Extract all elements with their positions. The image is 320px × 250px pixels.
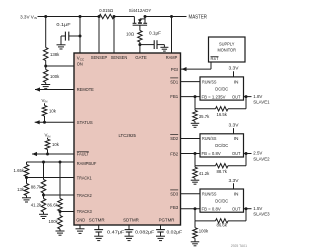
svg-text:10Ω: 10Ω — [126, 32, 134, 37]
svg-text:MONITOR: MONITOR — [217, 48, 236, 53]
svg-text:GND: GND — [76, 217, 85, 222]
svg-text:FAULT: FAULT — [77, 152, 89, 157]
svg-text:FB = 1.235V: FB = 1.235V — [202, 94, 226, 99]
svg-text:3.3V VIN: 3.3V VIN — [20, 14, 37, 20]
svg-text:1.5V: 1.5V — [253, 206, 262, 211]
svg-text:DC/DC: DC/DC — [215, 86, 228, 91]
svg-text:RUN/SS: RUN/SS — [202, 191, 217, 196]
svg-text:SLAVE2: SLAVE2 — [253, 157, 270, 162]
svg-text:13k: 13k — [17, 187, 25, 192]
svg-text:OUT: OUT — [232, 206, 241, 211]
svg-text:SLAVE1: SLAVE1 — [253, 100, 270, 105]
svg-text:100k: 100k — [48, 219, 58, 224]
svg-text:SCTMR: SCTMR — [89, 218, 105, 223]
svg-text:OUT: OUT — [232, 94, 241, 99]
svg-text:SDTMR: SDTMR — [123, 218, 139, 223]
svg-text:PGI: PGI — [171, 67, 179, 72]
svg-text:ON: ON — [77, 61, 83, 66]
svg-text:PGTMR: PGTMR — [159, 218, 175, 223]
svg-text:FB = 0.8V: FB = 0.8V — [202, 151, 221, 156]
svg-text:41.2k: 41.2k — [31, 202, 42, 207]
svg-text:0.1μF: 0.1μF — [149, 30, 161, 35]
svg-text:IN: IN — [234, 136, 239, 141]
svg-text:1.65k: 1.65k — [13, 168, 24, 173]
svg-text:SD2: SD2 — [170, 136, 179, 141]
svg-text:VIN: VIN — [45, 132, 51, 138]
svg-text:RUN/SS: RUN/SS — [202, 79, 217, 84]
svg-text:3.3V: 3.3V — [229, 123, 239, 128]
svg-text:0.47μF: 0.47μF — [107, 230, 125, 235]
svg-text:FB = 0.8V: FB = 0.8V — [202, 206, 221, 211]
svg-text:2925 TA01: 2925 TA01 — [231, 244, 247, 248]
svg-text:SUPPLY: SUPPLY — [219, 42, 235, 47]
svg-text:TRACK1: TRACK1 — [77, 175, 92, 180]
svg-text:RAMP: RAMP — [166, 55, 178, 60]
svg-text:3.3V: 3.3V — [229, 66, 239, 71]
svg-text:MASTER: MASTER — [189, 14, 208, 20]
svg-text:RUN/SS: RUN/SS — [202, 136, 217, 141]
svg-text:GATE: GATE — [135, 55, 147, 60]
svg-text:SENSEP: SENSEP — [91, 55, 108, 60]
svg-text:SD3: SD3 — [170, 191, 179, 196]
svg-text:41.2k: 41.2k — [199, 171, 210, 176]
svg-text:100k: 100k — [199, 229, 209, 234]
svg-text:100k: 100k — [50, 74, 60, 79]
svg-text:0.082μF: 0.082μF — [135, 230, 155, 235]
svg-text:1.8V: 1.8V — [253, 94, 262, 99]
svg-text:FB2: FB2 — [170, 152, 179, 157]
svg-text:STATUS: STATUS — [77, 120, 93, 125]
svg-text:88.7k: 88.7k — [31, 185, 42, 190]
svg-text:TRACK3: TRACK3 — [77, 209, 92, 214]
svg-text:0.02μF: 0.02μF — [167, 230, 183, 235]
svg-text:3.3V: 3.3V — [229, 178, 239, 183]
svg-text:SLAVE3: SLAVE3 — [253, 212, 270, 217]
svg-text:FB3: FB3 — [170, 205, 179, 210]
svg-text:OUT: OUT — [232, 151, 241, 156]
svg-text:0.015Ω: 0.015Ω — [99, 8, 113, 13]
svg-text:RST: RST — [211, 56, 219, 61]
svg-text:SD1: SD1 — [170, 79, 179, 84]
svg-text:IN: IN — [234, 191, 239, 196]
svg-text:REMOTE: REMOTE — [77, 87, 94, 92]
svg-text:SENSEN: SENSEN — [111, 55, 128, 60]
svg-text:10k: 10k — [49, 108, 57, 113]
svg-text:FB1: FB1 — [170, 94, 179, 99]
svg-text:0.1μF: 0.1μF — [56, 22, 71, 27]
svg-text:DC/DC: DC/DC — [215, 198, 228, 203]
svg-text:35.7k: 35.7k — [199, 114, 210, 119]
svg-text:10k: 10k — [52, 142, 60, 147]
svg-text:DC/DC: DC/DC — [215, 143, 228, 148]
svg-text:88.7k: 88.7k — [216, 169, 227, 174]
svg-text:138k: 138k — [50, 52, 60, 57]
svg-text:VIN: VIN — [42, 98, 48, 104]
svg-text:TRACK2: TRACK2 — [77, 193, 92, 198]
svg-text:16.5k: 16.5k — [216, 112, 227, 117]
svg-text:IN: IN — [234, 79, 239, 84]
svg-text:LTC2925: LTC2925 — [118, 133, 136, 138]
svg-text:2.5V: 2.5V — [253, 151, 262, 156]
svg-text:Si4412ADY: Si4412ADY — [129, 8, 152, 13]
svg-text:86.6k: 86.6k — [47, 202, 58, 207]
svg-text:RAMPBUF: RAMPBUF — [77, 161, 97, 166]
svg-text:86.6k: 86.6k — [216, 222, 227, 227]
